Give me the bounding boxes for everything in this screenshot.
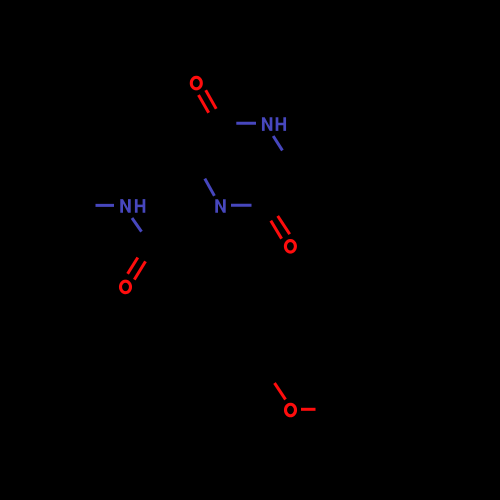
bond N3-C(amide) blue half (diagonal down-right): [132, 218, 142, 232]
atom O4 (ether oxygen, bottom): [286, 404, 296, 416]
bond C5=O1 double bond red half, inner line: [199, 95, 209, 113]
bond N4-C3 blue half (diagonal down-right): [273, 136, 282, 150]
bond C=O3 double bond red half, left line: [128, 258, 138, 274]
atom O3 (amide carbonyl oxygen, left): [121, 281, 131, 293]
atom O2 (right ring carbonyl oxygen): [285, 241, 295, 253]
bond C2=O2 double bond red half, inner line: [271, 221, 282, 239]
bond C5-N4 blue half (horizontal): [236, 122, 256, 125]
atom N3 H label (amide NH, left): [120, 199, 145, 213]
bond Caryl-O4 red half (diagonal up-left): [275, 383, 286, 400]
atom N4 H label (ring NH, top right): [262, 117, 286, 131]
atom O1 (top ring carbonyl oxygen): [191, 77, 201, 89]
bond C-N3 blue half (horizontal left): [96, 204, 115, 207]
bond N1-C2 blue half (horizontal right): [231, 204, 252, 207]
bond C6-N1 blue half (diagonal up-left of N): [205, 179, 215, 196]
bond C5=O1 double bond red half, main line: [206, 90, 217, 109]
bond C=O3 double bond red half, right line: [134, 261, 145, 279]
bond C2=O2 double bond red half, main line: [278, 216, 290, 234]
atom N1 (ring nitrogen): [215, 199, 225, 213]
bond O4-CH2 red half (horizontal right): [301, 408, 316, 411]
